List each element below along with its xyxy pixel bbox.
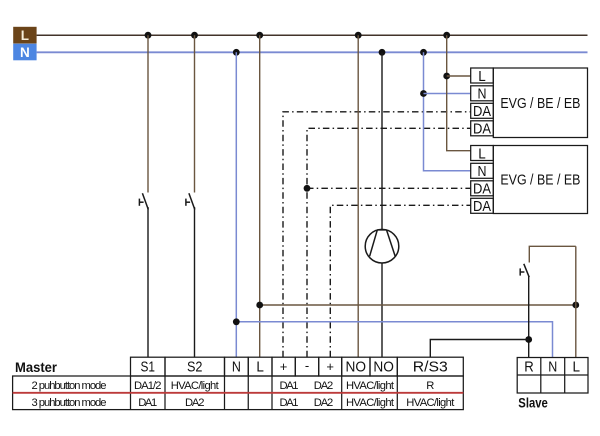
svg-text:DA1: DA1 bbox=[138, 397, 157, 409]
svg-text:NO: NO bbox=[373, 359, 394, 376]
svg-text:NO: NO bbox=[346, 359, 367, 376]
ballast U1 (EVG / BE / EB unit 1) bbox=[471, 68, 588, 138]
svg-text:R/S3: R/S3 bbox=[413, 359, 448, 376]
wire L to slave (brown horizontal) bbox=[260, 304, 576, 306]
wire DALI minus (dash-dot vertical from - terminal) bbox=[307, 128, 471, 357]
wire S1 upper (brown drop to switch S1) bbox=[147, 35, 149, 192]
svg-text:DA: DA bbox=[473, 122, 491, 138]
svg-text:HVAC/light: HVAC/light bbox=[171, 380, 220, 392]
junction EVG1 L tap bbox=[443, 73, 450, 80]
wire fan lower (black from fan to second NO) bbox=[381, 263, 383, 357]
wire S2 lower (to master S2 terminal) bbox=[194, 207, 196, 357]
svg-text:3 puhbutton mode: 3 puhbutton mode bbox=[32, 397, 107, 409]
svg-text:DA: DA bbox=[473, 182, 491, 198]
svg-text:L: L bbox=[478, 69, 486, 85]
svg-text:DA2: DA2 bbox=[314, 380, 334, 392]
svg-text:DA2: DA2 bbox=[314, 397, 334, 409]
wire slave L vertical (brown) bbox=[575, 246, 577, 357]
junction on L bus at EVG feed bbox=[443, 32, 450, 39]
svg-text:L: L bbox=[21, 28, 29, 43]
switch S1 (push-button NO contact) bbox=[139, 193, 148, 209]
svg-text:-: - bbox=[305, 358, 309, 373]
wire R/S3 link (black to master R/S3) bbox=[430, 340, 528, 358]
junction on L bus at S2 bbox=[191, 32, 198, 39]
wire DALI DA1+ (dash-dot vertical from + terminal) bbox=[283, 112, 471, 357]
svg-text:DA2: DA2 bbox=[185, 397, 205, 409]
svg-text:L: L bbox=[478, 147, 486, 163]
svg-text:HVAC/light: HVAC/light bbox=[346, 380, 395, 392]
svg-text:S2: S2 bbox=[187, 359, 203, 376]
wire S2 upper (brown drop to switch S2) bbox=[194, 35, 196, 192]
svg-text:EVG / BE / EB: EVG / BE / EB bbox=[500, 95, 580, 112]
svg-text:DA1: DA1 bbox=[280, 397, 299, 409]
junction on L bus at relay NO feed bbox=[355, 32, 362, 39]
junction on N bus at master N bbox=[233, 49, 240, 56]
svg-text:R: R bbox=[524, 359, 534, 376]
wire DALI branch to EVG2 DA1 (dash-dot) bbox=[307, 187, 471, 189]
fan M1 (ventilator symbol) bbox=[365, 229, 399, 263]
wire master L drop (brown vertical) bbox=[259, 35, 261, 357]
wire L bus (brown horizontal) bbox=[37, 34, 588, 36]
svg-text:L: L bbox=[256, 359, 264, 376]
node L (mains phase source box) bbox=[13, 27, 36, 44]
wire EVG L feed (brown from L bus to EVG2 L) bbox=[447, 35, 471, 151]
divider red row separator bbox=[13, 392, 464, 394]
switch S2 (push-button NO contact) bbox=[186, 193, 195, 209]
svg-text:N: N bbox=[20, 45, 30, 60]
junction EVG1 N tap bbox=[420, 90, 427, 97]
svg-text:+: + bbox=[326, 359, 334, 374]
junction slave L column bbox=[572, 302, 579, 309]
junction slave R / master R bbox=[525, 336, 532, 343]
junction on N bus at EVG feed bbox=[420, 49, 427, 56]
wire fan upper (black from N bus to fan) bbox=[381, 52, 383, 230]
slave terminal block bbox=[517, 358, 588, 394]
svg-text:Master: Master bbox=[15, 360, 57, 376]
svg-text:HVAC/light: HVAC/light bbox=[406, 397, 455, 409]
wire EVG1 N branch (blue) bbox=[424, 93, 471, 95]
svg-text:N: N bbox=[232, 359, 241, 376]
svg-text:R: R bbox=[426, 380, 434, 392]
wire DALI DA2+ (dash-dot vertical from second + terminal) bbox=[330, 205, 470, 357]
svg-text:DA: DA bbox=[473, 199, 491, 215]
junction N drop / slave feed bbox=[233, 318, 240, 325]
switch S3 (slave push-button NO contact) bbox=[520, 264, 529, 277]
junction on L bus at master L bbox=[256, 32, 263, 39]
wire N to slave (blue horizontal) bbox=[236, 322, 552, 358]
node N (mains neutral source box) bbox=[13, 44, 36, 61]
svg-text:Slave: Slave bbox=[518, 396, 548, 412]
svg-text:EVG / BE / EB: EVG / BE / EB bbox=[500, 172, 580, 189]
svg-text:N: N bbox=[548, 359, 557, 376]
label 2-pushbutton row bbox=[32, 380, 435, 392]
master terminal block header bbox=[131, 357, 464, 376]
wire master N drop (blue vertical) bbox=[235, 52, 237, 357]
svg-text:DA: DA bbox=[473, 104, 491, 120]
mode table rows bbox=[13, 376, 464, 410]
svg-text:S1: S1 bbox=[140, 359, 155, 376]
label 3-pushbutton row bbox=[32, 397, 456, 409]
svg-text:L: L bbox=[573, 359, 581, 376]
wire slave switch feed (brown corner) bbox=[529, 246, 576, 262]
wire S1 lower (to master S1 terminal) bbox=[147, 207, 149, 357]
svg-text:N: N bbox=[478, 164, 487, 180]
wire EVG1 L branch (brown) bbox=[447, 75, 471, 77]
svg-text:DA1/2: DA1/2 bbox=[134, 380, 162, 392]
svg-text:+: + bbox=[280, 359, 288, 374]
svg-text:N: N bbox=[478, 87, 487, 103]
wire slave switch lower (black to slave R) bbox=[528, 277, 530, 358]
junction on N bus at fan bbox=[379, 49, 386, 56]
junction DALI minus branch bbox=[304, 185, 311, 192]
junction L drop / slave feed bbox=[256, 302, 263, 309]
wire EVG N feed (blue from N bus to EVG2 N) bbox=[424, 52, 471, 171]
svg-text:HVAC/light: HVAC/light bbox=[346, 397, 395, 409]
wire N bus (blue horizontal) bbox=[37, 51, 588, 53]
svg-text:DA1: DA1 bbox=[280, 380, 299, 392]
junction on L bus at S1 bbox=[145, 32, 152, 39]
ballast U2 (EVG / BE / EB unit 2) bbox=[471, 146, 588, 214]
svg-text:2 puhbutton mode: 2 puhbutton mode bbox=[32, 380, 107, 392]
wire relay NO feed (brown vertical from L bus to first NO) bbox=[357, 35, 359, 357]
